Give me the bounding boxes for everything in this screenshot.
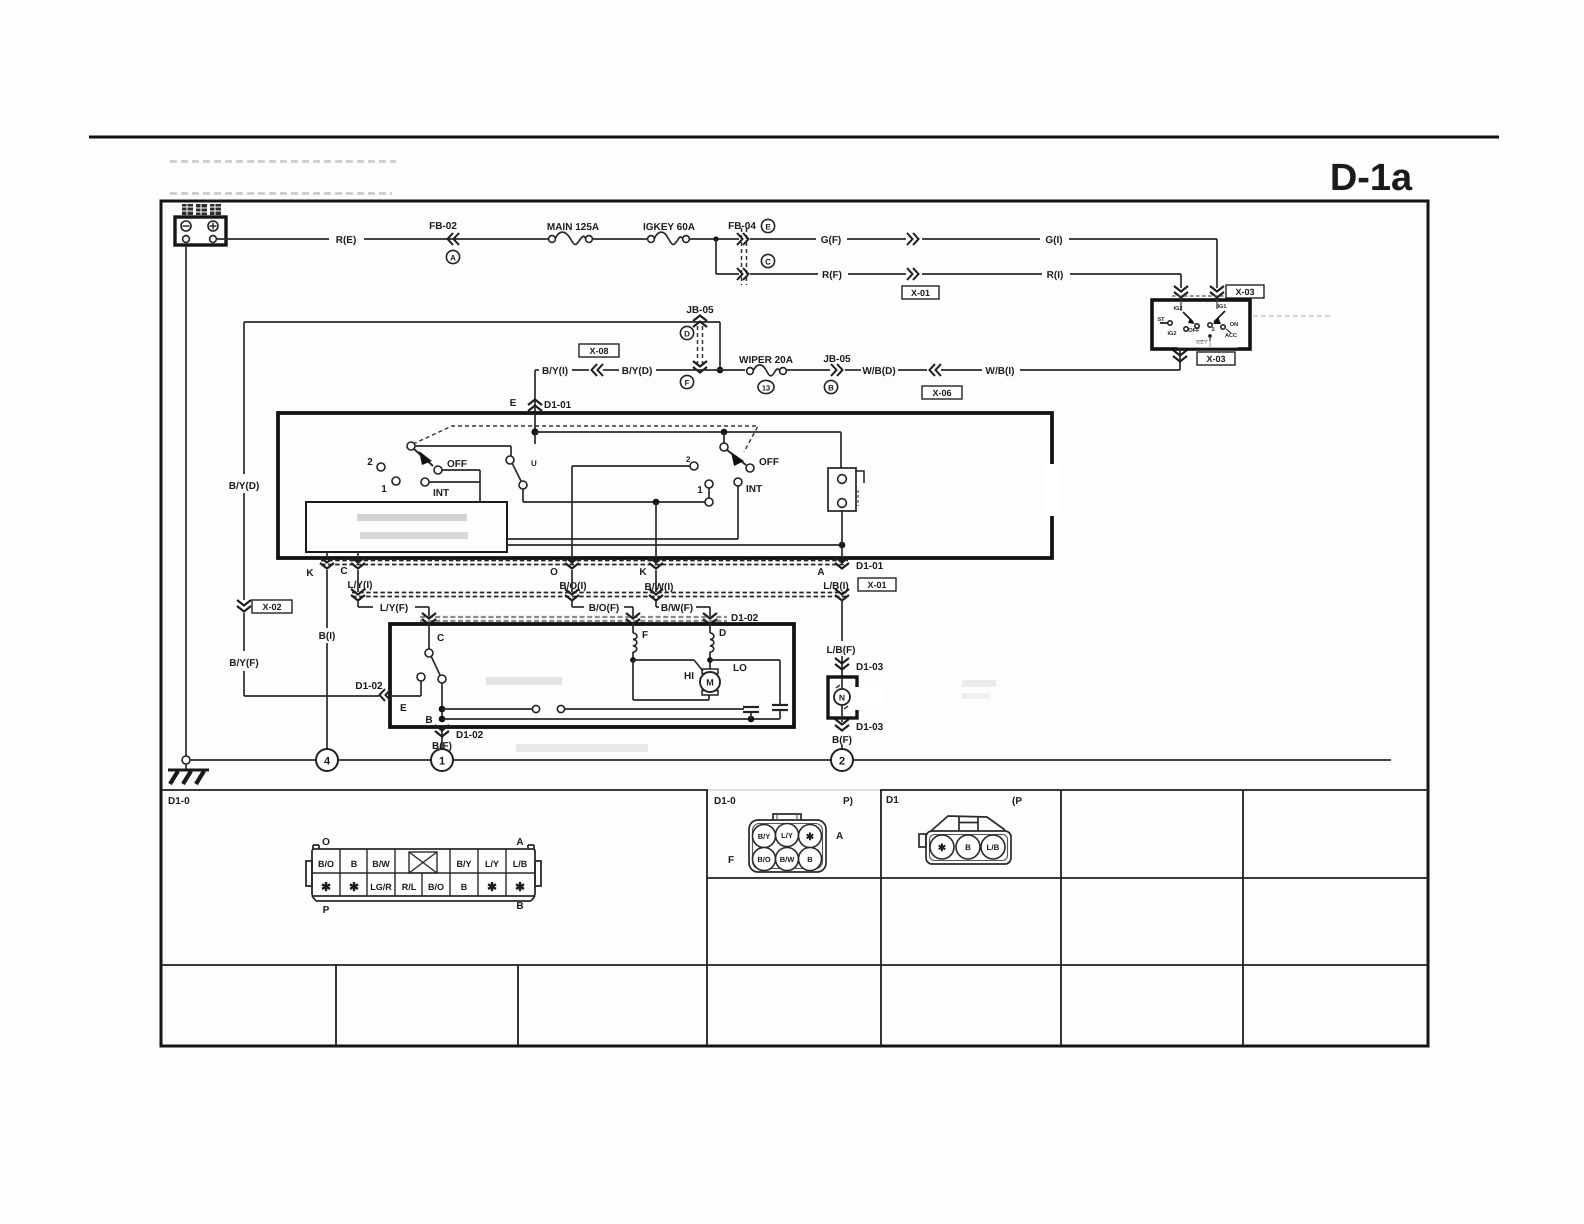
svg-text:B(I): B(I) <box>319 631 336 642</box>
svg-text:B: B <box>965 843 971 852</box>
svg-text:C: C <box>437 633 444 644</box>
svg-text:X-03: X-03 <box>1206 354 1225 364</box>
svg-text:R(E): R(E) <box>336 235 357 246</box>
svg-text:✱: ✱ <box>487 880 497 894</box>
svg-text:A: A <box>516 837 523 848</box>
svg-text:B/W(F): B/W(F) <box>661 603 693 614</box>
svg-text:L/B(F): L/B(F) <box>827 645 856 656</box>
svg-text:B/O(F): B/O(F) <box>589 603 620 614</box>
svg-text:F: F <box>728 855 734 866</box>
svg-text:LO: LO <box>733 663 747 674</box>
svg-text:IG2: IG2 <box>1173 306 1182 312</box>
svg-text:B: B <box>461 882 468 892</box>
svg-text:M: M <box>706 678 714 688</box>
svg-text:B/O: B/O <box>428 882 444 892</box>
svg-text:F: F <box>642 630 648 641</box>
svg-text:✱: ✱ <box>938 843 947 854</box>
svg-text:LG/R: LG/R <box>370 882 392 892</box>
svg-text:B/O: B/O <box>757 855 771 864</box>
svg-text:IGKEY 60A: IGKEY 60A <box>643 222 695 233</box>
svg-text:2: 2 <box>686 455 691 464</box>
svg-text:D1: D1 <box>886 795 899 806</box>
svg-text:WIPER 20A: WIPER 20A <box>739 355 793 366</box>
svg-text:ACC: ACC <box>1225 333 1237 339</box>
svg-text:P: P <box>323 905 330 916</box>
svg-text:B/Y: B/Y <box>456 859 471 869</box>
svg-text:E: E <box>400 703 407 714</box>
svg-text:L/Y: L/Y <box>485 859 499 869</box>
svg-text:K: K <box>306 568 314 579</box>
svg-text:✱: ✱ <box>321 880 331 894</box>
svg-text:P): P) <box>843 796 853 807</box>
svg-text:X-02: X-02 <box>262 602 281 612</box>
svg-text:B/Y(F): B/Y(F) <box>229 658 258 669</box>
svg-text:E: E <box>510 398 517 409</box>
svg-text:O: O <box>322 837 330 848</box>
svg-text:B/Y(D): B/Y(D) <box>622 366 653 377</box>
svg-text:E: E <box>765 223 771 232</box>
svg-text:G(I): G(I) <box>1045 235 1062 246</box>
svg-text:✱: ✱ <box>349 880 359 894</box>
svg-text:D: D <box>719 628 726 639</box>
svg-text:D1-0: D1-0 <box>168 796 190 807</box>
svg-text:IG1: IG1 <box>1217 304 1226 310</box>
svg-text:B: B <box>516 901 523 912</box>
svg-text:B(F): B(F) <box>832 735 852 746</box>
svg-text:1: 1 <box>697 485 703 496</box>
svg-text:L/Y: L/Y <box>781 831 793 840</box>
svg-text:L/B: L/B <box>513 859 528 869</box>
svg-text:L/B: L/B <box>987 843 1000 852</box>
svg-text:13: 13 <box>762 384 770 393</box>
svg-text:C: C <box>765 258 771 267</box>
svg-text:A: A <box>450 254 456 263</box>
svg-text:X-03: X-03 <box>1235 287 1254 297</box>
svg-text:D1-0: D1-0 <box>714 796 736 807</box>
svg-text:N: N <box>839 693 845 703</box>
svg-text:R/L: R/L <box>402 882 417 892</box>
svg-text:G(F): G(F) <box>821 235 842 246</box>
svg-text:✱: ✱ <box>515 880 525 894</box>
svg-text:B/Y(I): B/Y(I) <box>542 366 568 377</box>
svg-text:F: F <box>685 379 690 388</box>
svg-text:INT: INT <box>746 484 762 495</box>
svg-text:OFF: OFF <box>759 457 779 468</box>
svg-text:X-01: X-01 <box>867 580 886 590</box>
svg-text:MAIN 125A: MAIN 125A <box>547 222 599 233</box>
svg-text:R(F): R(F) <box>822 270 842 281</box>
svg-text:1: 1 <box>381 484 387 495</box>
svg-text:O: O <box>550 567 558 578</box>
svg-text:W/B(D): W/B(D) <box>862 366 895 377</box>
svg-text:B/W: B/W <box>780 855 796 864</box>
svg-text:K: K <box>639 567 647 578</box>
svg-text:(P: (P <box>1012 796 1022 807</box>
svg-text:W/B(I): W/B(I) <box>986 366 1015 377</box>
svg-text:2: 2 <box>839 756 845 768</box>
svg-text:D: D <box>684 330 690 339</box>
svg-text:B/O(I): B/O(I) <box>559 581 586 592</box>
svg-text:C: C <box>340 566 347 577</box>
svg-text:B: B <box>828 384 834 393</box>
svg-text:B/O: B/O <box>318 859 334 869</box>
svg-text:FB-02: FB-02 <box>429 221 457 232</box>
svg-text:X-01: X-01 <box>911 288 930 298</box>
svg-text:R(I): R(I) <box>1047 270 1064 281</box>
svg-text:D1-01: D1-01 <box>856 561 884 572</box>
svg-text:4: 4 <box>324 756 331 768</box>
svg-text:B: B <box>807 855 813 864</box>
svg-text:A: A <box>817 567 824 578</box>
svg-text:B/W: B/W <box>372 859 390 869</box>
svg-text:✱: ✱ <box>806 832 815 843</box>
svg-text:OFF: OFF <box>1188 328 1200 334</box>
svg-text:L/Y(F): L/Y(F) <box>380 603 408 614</box>
svg-text:OFF: OFF <box>447 459 467 470</box>
svg-text:B: B <box>351 859 358 869</box>
svg-text:B/W(I): B/W(I) <box>645 582 674 593</box>
svg-text:2: 2 <box>367 457 373 468</box>
svg-text:B/Y: B/Y <box>758 832 771 841</box>
svg-text:ON: ON <box>1230 322 1238 328</box>
svg-text:B/Y(D): B/Y(D) <box>229 481 260 492</box>
svg-text:2: 2 <box>1211 327 1214 333</box>
svg-text:1: 1 <box>439 756 445 768</box>
svg-text:L/Y(I): L/Y(I) <box>348 580 373 591</box>
svg-text:JB-05: JB-05 <box>823 354 851 365</box>
svg-text:X-08: X-08 <box>589 346 608 356</box>
svg-text:U: U <box>531 459 537 468</box>
svg-text:D-1a: D-1a <box>1330 157 1413 199</box>
svg-text:INT: INT <box>433 488 449 499</box>
svg-text:D1-01: D1-01 <box>544 400 572 411</box>
svg-text:D1-02: D1-02 <box>456 730 484 741</box>
svg-text:HI: HI <box>684 671 694 682</box>
svg-text:X-06: X-06 <box>932 388 951 398</box>
svg-text:D1-02: D1-02 <box>355 681 383 692</box>
svg-text:L/B(I): L/B(I) <box>823 581 849 592</box>
svg-text:IG2: IG2 <box>1167 331 1176 337</box>
svg-text:A: A <box>836 831 843 842</box>
svg-text:D1-03: D1-03 <box>856 662 884 673</box>
svg-text:D1-03: D1-03 <box>856 722 884 733</box>
svg-text:B: B <box>425 715 432 726</box>
